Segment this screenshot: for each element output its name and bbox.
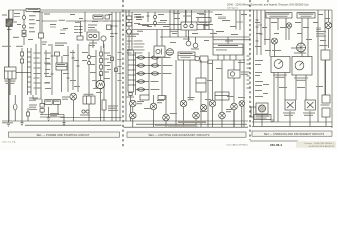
- instrument cluster lamp big: [297, 43, 306, 52]
- wire bus feed: [63, 115, 65, 122]
- wire switch drop: [40, 38, 42, 48]
- footer rule bottom right: [250, 140, 298, 142]
- wire gauge drop 4: [305, 75, 307, 100]
- fuse 5: [138, 88, 145, 91]
- temp sender box: [285, 100, 296, 110]
- section divider dashed SE1/SE2: [122, 0, 124, 147]
- wire relay feed b: [191, 10, 193, 24]
- optional wiring box B: [297, 13, 315, 19]
- frame second top line: [33, 11, 213, 13]
- horn relay contact b: [190, 24, 193, 27]
- wire cable bend: [33, 95, 41, 99]
- mid top component wire: [154, 12, 156, 27]
- mid tick c: [67, 77, 70, 79]
- harness component h0: [107, 25, 112, 30]
- switch stack rotary: [127, 29, 132, 34]
- turn signal switch box: [213, 44, 243, 55]
- warning lamp L1: [70, 93, 77, 100]
- turn switch lead 4: [235, 55, 237, 60]
- solenoid shade mark: [7, 20, 13, 26]
- connector rung 1: [28, 51, 32, 53]
- fuse holder small: [55, 52, 60, 56]
- harness tick 2: [115, 25, 118, 27]
- ballast resistor body: [102, 100, 106, 110]
- horn relay box: [181, 22, 197, 30]
- wire regulator output: [16, 72, 28, 74]
- wire aux run left a: [35, 44, 37, 95]
- wire option B lead 2: [307, 18, 309, 57]
- switch stack contact 1: [127, 16, 132, 20]
- wire relay feed a: [185, 10, 187, 24]
- wire lamp L9 feed: [221, 60, 223, 112]
- turn switch inner row: [213, 47, 243, 49]
- connector pair circle B: [86, 110, 89, 113]
- wire connector drop: [80, 21, 82, 40]
- lamp L9: [219, 112, 226, 119]
- lamp L16 filament: [287, 24, 291, 28]
- harness component h2: [115, 68, 118, 72]
- headlamp L3 filament: [131, 113, 136, 118]
- wire harness run M3: [185, 10, 187, 37]
- receptacle socket B: [193, 43, 198, 48]
- wire gauge drop 2: [284, 73, 286, 101]
- harness wire H1: [111, 12, 113, 121]
- ladder fuse 3: [100, 65, 103, 69]
- legend title row 2: [127, 36, 136, 37]
- wire ballast top: [103, 44, 105, 100]
- oil sender cross: [307, 102, 314, 108]
- mid cluster wire c: [61, 56, 63, 63]
- lamp L8 filament: [210, 101, 215, 106]
- harness wire R4: [264, 10, 266, 45]
- wire lamp L8 drop: [212, 107, 214, 127]
- wire solenoid to ground bus: [8, 27, 10, 122]
- connector strip pin rail B: [30, 48, 32, 95]
- interlock box inner: [56, 66, 67, 68]
- fusible link oval: [13, 104, 17, 110]
- wire sender drop 2: [289, 111, 291, 126]
- wire battery link: [41, 112, 43, 114]
- wire lamp L13 drop: [327, 29, 329, 48]
- harness chain component a: [21, 52, 24, 56]
- wire sender drop 4: [325, 117, 327, 126]
- starter cable line 2: [40, 116, 64, 118]
- relay K1 inner B: [90, 96, 92, 104]
- wire dimmer drop a: [175, 60, 177, 127]
- wire neutral start run: [40, 48, 42, 95]
- lamp holder box: [158, 96, 165, 100]
- wire flasher drop a: [156, 57, 158, 64]
- wire solenoid feed: [8, 10, 10, 19]
- frame top border: [9, 9, 333, 11]
- light switch feed wire C: [131, 12, 133, 55]
- ladder fuse 2: [100, 59, 103, 63]
- switch stack contact 2: [127, 23, 132, 27]
- fuel sender box: [256, 103, 268, 114]
- wire gauge drop 3: [295, 75, 297, 100]
- battery cell plates lower: [40, 109, 44, 113]
- wire accessory bus: [160, 36, 250, 38]
- wire lamp L16 drop: [288, 28, 290, 40]
- wire lamp L14 drop: [274, 44, 276, 57]
- wire option A lead 2: [277, 18, 279, 30]
- headlamp L3: [130, 112, 137, 119]
- mid top stub tick: [147, 15, 150, 17]
- svg-text:SE1 — POWER AND STARTING CIRCU: SE1 — POWER AND STARTING CIRCUIT: [36, 133, 89, 137]
- wire starter bus: [40, 114, 64, 116]
- svg-text:M-49 8100 W76 AB MX14: M-49 8100 W76 AB MX14: [309, 145, 335, 148]
- cluster lamp cross: [296, 43, 306, 53]
- wire bottom drop b: [48, 107, 50, 115]
- wire lamp L6 feed: [183, 60, 185, 100]
- wire top drop e: [173, 10, 175, 30]
- ground G4: [20, 121, 23, 126]
- wire fusible link top: [14, 95, 16, 104]
- starter solenoid S1: [6, 19, 12, 27]
- horn relay contact a: [184, 24, 187, 27]
- lamp L9 filament: [220, 113, 225, 118]
- light switch feed wire A: [125, 10, 127, 121]
- ground tick SE3: [270, 120, 274, 122]
- lamp L5 filament: [164, 115, 169, 120]
- light switch rung 5: [128, 74, 136, 76]
- wire turn feed: [227, 37, 229, 44]
- starter motor mark: [98, 83, 102, 87]
- indicator lamp L10: [195, 56, 200, 61]
- temp sender cross: [287, 102, 294, 108]
- label box cranking circuit: [26, 8, 40, 11]
- mid top contact a: [153, 15, 156, 18]
- wire aux drop c: [207, 60, 209, 127]
- wire battery lead: [12, 10, 14, 21]
- turn switch lead 3: [229, 55, 231, 60]
- wire gauge drop 1b: [273, 73, 275, 123]
- wire lighter feed: [233, 60, 235, 70]
- push switch box: [87, 32, 99, 40]
- solenoid side lead: [12, 21, 17, 23]
- wire option A lead 1: [269, 18, 271, 57]
- chassis bus SE2 main: [124, 120, 249, 122]
- switch assembly box: [215, 92, 229, 100]
- wire flasher feed a: [156, 30, 158, 47]
- svg-text:with figures: with figures: [227, 7, 239, 10]
- mid top contact b: [153, 21, 156, 24]
- short connector segments pepper: [14, 15, 321, 31]
- wire lighter drop: [233, 78, 235, 127]
- wire starter cable: [32, 95, 34, 99]
- wire lamp L5 feed: [165, 95, 167, 114]
- connector rung 3: [28, 61, 32, 63]
- light switch rung 2: [128, 59, 136, 61]
- harness tick 1: [111, 25, 114, 27]
- lamp L13 filament: [326, 23, 331, 28]
- wire battery to bus: [41, 99, 43, 104]
- wire option B lead 1: [301, 18, 303, 57]
- harness wire H3: [119, 12, 121, 121]
- wire dimmer drop b: [189, 60, 191, 100]
- wire lamp L7 drop: [195, 119, 197, 127]
- wire ignition double run B: [41, 12, 43, 33]
- mid tick e: [77, 65, 80, 67]
- title text top right: [227, 2, 309, 9]
- wire lamp L8 feed: [212, 60, 214, 100]
- ground G3: [62, 121, 65, 126]
- turn switch lead 2: [223, 55, 225, 60]
- wire bottom drop a: [27, 108, 29, 121]
- wire circuit bus top: [132, 29, 213, 31]
- starter motor box: [45, 100, 52, 105]
- chassis bus SE2 upper: [136, 123, 247, 125]
- lamp L12: [239, 101, 245, 107]
- wire push switch feed: [84, 12, 86, 32]
- harness component h1: [111, 57, 114, 61]
- light switch rung 4: [128, 69, 136, 71]
- harness chain component b: [21, 59, 24, 63]
- chassis bus SE1 lower: [25, 124, 122, 126]
- svg-text:SE2 — LIGHTING AND ACCESSORY C: SE2 — LIGHTING AND ACCESSORY CIRCUITS: [149, 133, 210, 137]
- receptacle socket A: [186, 41, 191, 46]
- key switch contact B: [22, 25, 25, 28]
- legend line 1: [127, 40, 132, 42]
- regulator inner line 1: [5, 70, 17, 72]
- switch assembly inner: [215, 95, 229, 97]
- mid cluster wire a: [51, 46, 53, 95]
- light switch rung 1: [128, 54, 136, 56]
- legend line 4: [127, 49, 132, 51]
- fuel gauge box: [271, 57, 290, 73]
- battery cell plates: [40, 104, 44, 108]
- oil sender box: [305, 100, 316, 110]
- connector tick 3: [79, 32, 83, 34]
- footer text bottom right corner: [296, 141, 336, 148]
- fuse 1: [138, 56, 145, 59]
- SE3 bar: [252, 131, 332, 136]
- switch block inner: [196, 82, 206, 84]
- wire socket B lead: [195, 37, 197, 43]
- headlamp L2 filament: [131, 101, 136, 106]
- harness tick 3: [111, 33, 114, 35]
- fuse 1 leads: [136, 57, 150, 59]
- mid cluster wire b: [56, 56, 58, 63]
- starter motor M: [96, 80, 104, 88]
- flasher inner tick: [161, 49, 163, 55]
- connector tick 1: [79, 26, 83, 28]
- connector rung 7: [28, 81, 32, 83]
- legend title text placeholder: [127, 34, 139, 35]
- lamp L8: [209, 100, 216, 107]
- mid tick a: [51, 55, 54, 57]
- harness wire R2: [256, 10, 258, 55]
- wire lamp L12 drop: [241, 106, 243, 127]
- push switch contact B: [93, 34, 96, 37]
- fuel gauge dial: [274, 60, 283, 69]
- wire ballast bottom: [103, 110, 105, 121]
- junction box mid: [200, 56, 208, 62]
- hour meter box: [321, 50, 330, 60]
- temp gauge box: [292, 57, 312, 76]
- wire label column ticks: [247, 56, 250, 88]
- optional wiring box A: [266, 13, 292, 19]
- lamp L5: [163, 114, 170, 121]
- text smudges SE1: [2, 9, 122, 123]
- wire harness run left: [21, 48, 23, 121]
- wire lamp L9 drop: [221, 119, 223, 127]
- connector pair circles: [82, 110, 85, 113]
- fuse 2 leads: [136, 65, 150, 67]
- light switch rung 3: [128, 64, 136, 66]
- connector rung 5: [28, 72, 32, 74]
- wire aux stub d: [239, 60, 241, 70]
- wire ignition double run A: [39, 12, 41, 33]
- wire label pepper texts: [2, 13, 330, 51]
- indicator lamp L16: [286, 23, 291, 28]
- mid tick d: [72, 57, 75, 59]
- wire top drop h: [235, 10, 237, 30]
- aux label box mid: [140, 95, 149, 100]
- frame right border: [331, 10, 333, 128]
- regulator inner line 2: [7, 71, 9, 79]
- wire fusible link bottom: [14, 110, 16, 121]
- dimmer inner line: [178, 55, 195, 57]
- wire meter drop: [325, 60, 327, 95]
- harness wire H2: [115, 12, 117, 121]
- wire top drop f: [204, 10, 206, 30]
- wire label break: [57, 19, 66, 22]
- voltage regulator box: [5, 67, 17, 79]
- wire motor ground: [99, 89, 101, 121]
- text smudges SE2: [126, 13, 249, 127]
- aux sender box right: [322, 108, 330, 117]
- aux contact circle b: [87, 61, 90, 64]
- connector rung 6: [28, 76, 32, 78]
- harness tick 4: [115, 33, 118, 35]
- wire sender drop 3: [309, 111, 311, 126]
- wire lamp L3 drop: [132, 119, 134, 127]
- key switch contact A: [22, 16, 26, 20]
- wire interlock drop: [61, 70, 63, 92]
- light switch terminal lower: [129, 93, 132, 96]
- ground symbol main: [7, 121, 11, 126]
- mid cluster wire d: [67, 46, 69, 92]
- wire lamp L2 drop: [132, 107, 134, 112]
- switch block box: [196, 78, 206, 92]
- wire socket A lead: [188, 37, 190, 41]
- lamp L11 filament: [232, 104, 237, 109]
- wire gauge drop 1: [277, 73, 279, 123]
- horn grille lines: [167, 51, 173, 55]
- lamp L11: [231, 103, 238, 110]
- mid cluster wire e: [72, 50, 74, 90]
- fuse 4 leads: [136, 81, 150, 83]
- svg-text:240-06-4: 240-06-4: [270, 143, 282, 147]
- lamp L4 filament: [151, 104, 156, 109]
- wire hour meter lead: [103, 41, 105, 48]
- svg-text:SE3 — CHARGING AND INSTRUMENT: SE3 — CHARGING AND INSTRUMENT CIRCUITS: [264, 132, 325, 136]
- wire upper run drop: [203, 24, 205, 29]
- chassis bus SE1 upper: [60, 117, 122, 119]
- dimmer switch box: [178, 52, 195, 60]
- safety switch contacts: [39, 33, 44, 38]
- wire lamp L5 drop: [165, 121, 167, 127]
- mid top stub wire: [147, 12, 149, 22]
- legend line 2: [127, 43, 132, 45]
- cigar lighter element: [230, 72, 234, 76]
- safety relay K1 box: [83, 96, 95, 104]
- wire upper accessory run: [138, 23, 213, 25]
- fuse 6: [152, 56, 159, 59]
- aux wire h: [95, 50, 97, 88]
- fuse 3 leads: [136, 73, 150, 75]
- svg-text:Litho in U.S.A.: Litho in U.S.A.: [2, 141, 16, 144]
- wire sender drop 1: [261, 114, 263, 126]
- wire lamp L11 drop: [233, 110, 235, 127]
- chassis bus SE2 lower: [124, 126, 249, 128]
- light switch rung 7: [128, 84, 136, 86]
- aux wire g: [88, 44, 90, 96]
- fuse 4: [138, 80, 145, 83]
- SE2 bar: [127, 132, 246, 137]
- wire right run A: [317, 10, 319, 122]
- wire harness run M2: [177, 10, 179, 37]
- fuse 8 lead: [149, 73, 161, 75]
- key switch column wire: [23, 10, 25, 45]
- wire starter drop: [57, 104, 59, 114]
- mid tick b: [51, 73, 54, 75]
- wire switch main drop: [130, 96, 132, 122]
- fuse ladder rail: [100, 46, 102, 74]
- legend line 5: [127, 52, 132, 54]
- svg-text:(w/o CAB LIGHTING): (w/o CAB LIGHTING): [227, 144, 248, 147]
- lamp L4: [150, 103, 157, 110]
- fuse 2: [138, 64, 145, 67]
- turn switch lead 1: [217, 55, 219, 60]
- fuse 8: [152, 72, 159, 75]
- resistor R1 body: [22, 34, 26, 37]
- harness tick r4: [256, 40, 259, 42]
- connector tick 2: [79, 29, 83, 31]
- fuse 7 lead: [149, 65, 161, 67]
- wire lamp L4 feed: [153, 95, 155, 103]
- fuse F1 body: [22, 30, 26, 33]
- light switch rung 6: [128, 79, 136, 81]
- push switch contact A: [89, 34, 92, 37]
- wire flasher feed b: [161, 30, 163, 47]
- connector rung 8: [28, 86, 32, 88]
- fuse 7: [152, 64, 159, 67]
- lamp L6: [180, 100, 187, 107]
- wire regulator ground: [9, 79, 11, 95]
- wire accessory feed: [42, 20, 121, 22]
- wire harness run M6: [239, 10, 241, 30]
- connector rung 2: [28, 56, 32, 58]
- fuel gauge needle: [279, 61, 282, 64]
- lamp L7: [193, 112, 200, 119]
- wire lamp L13 feed: [327, 10, 329, 22]
- wire switch block drop: [200, 92, 202, 127]
- second accessory line: [213, 39, 250, 41]
- harness wire R1: [253, 10, 255, 126]
- fuse bank feed rail A: [135, 52, 137, 95]
- solenoid aux box: [53, 100, 60, 105]
- wire lamp L1 drop: [72, 100, 74, 121]
- wire motor feed: [99, 74, 101, 80]
- frame left border: [8, 10, 10, 121]
- ground bus SE1: [2, 120, 122, 122]
- light switch feed wire B: [128, 10, 130, 55]
- wire switch block feed: [200, 60, 202, 78]
- wire harness run M5: [243, 10, 245, 127]
- legend line 3: [127, 46, 132, 48]
